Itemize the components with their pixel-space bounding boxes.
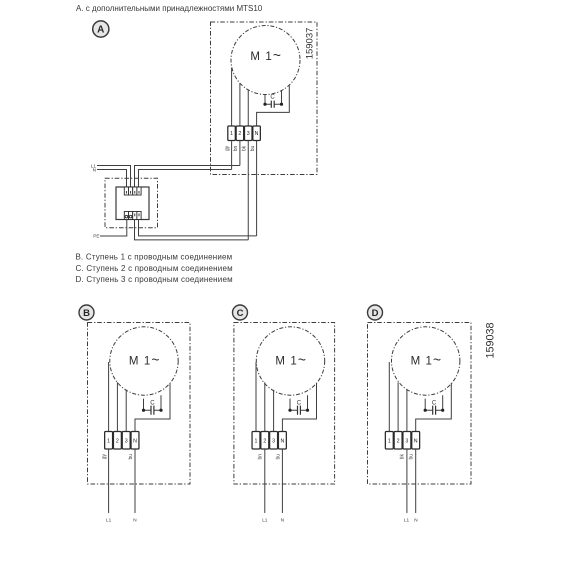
svg-text:B: B [83,308,90,319]
svg-text:C: C [270,95,275,101]
MTS10 dash-dot enclosure [105,178,158,227]
svg-text:bn: bn [258,454,264,460]
terminal block B [105,432,139,450]
svg-text:1: 1 [388,438,391,444]
svg-text:159037: 159037 [305,28,316,60]
svg-text:M 1~: M 1~ [275,353,307,368]
wire L1 down (B) [108,449,110,513]
capacitor stubs (D) [425,395,443,410]
circled label A [93,21,109,37]
svg-text:С. Ступень 2 с проводным соеди: С. Ступень 2 с проводным соединением [76,264,233,273]
svg-text:A: A [97,25,104,36]
svg-text:bu: bu [275,454,281,460]
motor M1 circle (diagram A) [231,26,300,95]
svg-text:M 1~: M 1~ [411,353,443,368]
svg-text:N: N [280,438,284,444]
wire motor to terminal 2 (A) [239,83,241,126]
wire N down (B) [134,449,136,513]
svg-text:2: 2 [238,131,241,137]
wire motor to terminal 3 (A) [247,90,249,126]
capacitor C1 wires (A) [265,103,282,105]
capacitor C1 plates (A) [271,101,274,108]
svg-text:3: 3 [247,131,250,137]
wire motor to terminal 3 (B) [125,390,127,432]
svg-text:C: C [237,308,244,319]
motor M1 circle (C) [256,327,324,395]
svg-text:N: N [133,518,136,523]
dash-dot enclosure box D [368,323,472,485]
junction dots capacitor (D) [424,409,427,412]
wire motor to terminal N via right (B) [135,383,170,432]
svg-text:bk: bk [400,454,406,460]
svg-text:3: 3 [272,438,275,444]
wire terminal N down (A) [256,141,258,236]
svg-text:3: 3 [125,438,128,444]
wire motor to terminal 3 (C) [273,390,275,432]
motor M1 circle (D) [392,327,460,395]
svg-text:N: N [93,167,96,172]
svg-text:1: 1 [107,438,110,444]
svg-text:bn: bn [233,146,239,152]
junction dots capacitor (A) [263,103,266,106]
svg-text:N: N [133,438,137,444]
wire motor to terminal 2 (C) [264,382,266,431]
svg-text:L1: L1 [262,518,268,523]
motor M1 circle (B) [110,327,178,395]
wire motor to terminal 2 (B) [116,382,118,431]
svg-text:3: 3 [405,438,408,444]
capacitor wires (C) [290,409,308,411]
MTS10 bottom terminal strip [124,212,141,220]
capacitor C1 right stub (A) [281,91,283,105]
capacitor stubs (B) [144,395,162,410]
svg-text:N: N [255,131,259,137]
circled label B [79,305,94,320]
capacitor plates (D) [433,406,436,415]
wire motor to terminal 1 (C) [255,362,257,432]
svg-text:2: 2 [397,438,400,444]
wire L1 to MTS10 [97,166,131,188]
svg-text:L1: L1 [404,518,410,523]
svg-text:C: C [297,401,302,407]
svg-text:gy: gy [224,145,230,151]
wire PE to MTS10 [100,220,127,237]
wire N down (C) [281,449,283,513]
wire below terminal 2 (A) [239,141,241,166]
terminal block A [228,126,261,141]
svg-text:N: N [414,518,417,523]
dash-dot enclosure box C [234,323,335,485]
circled label D [368,305,383,320]
svg-text:1: 1 [255,438,258,444]
wire motor to terminal 1 (D) [388,362,390,432]
svg-text:bu: bu [128,454,134,460]
junction dots capacitor (B) [142,409,145,412]
svg-text:bk: bk [241,145,247,151]
capacitor plates (C) [298,406,301,415]
svg-text:А. с дополнительными принадлеж: А. с дополнительными принадлежностями MT… [76,4,263,13]
wire motor to terminal 1 (A) [231,68,233,126]
wire motor to terminal N via right (D) [416,383,452,432]
svg-text:M 1~: M 1~ [250,48,282,63]
svg-text:C: C [150,401,155,407]
svg-text:bu: bu [250,146,256,152]
wire MTS10 to terminal 1 (A) [139,170,232,188]
wire motor to terminal N via right side (A) [257,85,290,126]
svg-text:2: 2 [263,438,266,444]
wire motor to terminal 2 (D) [397,382,399,431]
svg-text:D. Ступень 3 с проводным соеди: D. Ступень 3 с проводным соединением [76,275,233,284]
svg-text:N: N [281,518,284,523]
wire MTS10 to terminal N (A) [139,220,257,236]
terminal block D [385,432,419,450]
terminal block C [252,432,286,450]
wire motor to terminal N via right (C) [282,383,316,432]
wire N down (D) [415,449,417,513]
MTS10 switch box U1 [116,187,149,220]
svg-text:gy: gy [101,454,107,460]
dash-dot enclosure box A [211,22,318,175]
svg-text:В. Ступень 1 с проводным соеди: В. Ступень 1 с проводным соединением [76,253,233,262]
svg-text:N: N [414,438,418,444]
svg-text:159038: 159038 [485,322,497,358]
junction dots capacitor (C) [288,409,291,412]
svg-text:M 1~: M 1~ [129,353,161,368]
svg-text:PE: PE [93,234,99,239]
circled label C [233,305,248,320]
wire N to MTS10 [97,170,127,188]
wire terminal 3 down (A) [247,141,249,240]
dash-dot enclosure box B [88,323,191,485]
capacitor plates (B) [151,406,154,415]
svg-text:D: D [372,308,379,319]
svg-text:1: 1 [230,131,233,137]
svg-text:2: 2 [116,438,119,444]
wire L1 down (C) [264,449,266,513]
svg-text:C: C [432,401,437,407]
capacitor wires (B) [144,409,162,411]
wire L1 down (D) [406,449,408,513]
wire MTS10 to terminal 3 (A) [135,220,249,240]
wire motor to terminal 1 (B) [108,362,110,432]
wire below terminal 1 (A) [231,141,233,170]
svg-text:L1: L1 [106,518,112,523]
wire motor to terminal 3 (D) [406,390,408,432]
capacitor wires (D) [425,409,443,411]
svg-text:bu: bu [409,454,415,460]
MTS10 top terminal strip [124,187,141,195]
capacitor C1 left stub (A) [264,95,266,105]
capacitor stubs (C) [290,395,308,410]
wire MTS10 to terminal 2 (A) [135,166,240,188]
